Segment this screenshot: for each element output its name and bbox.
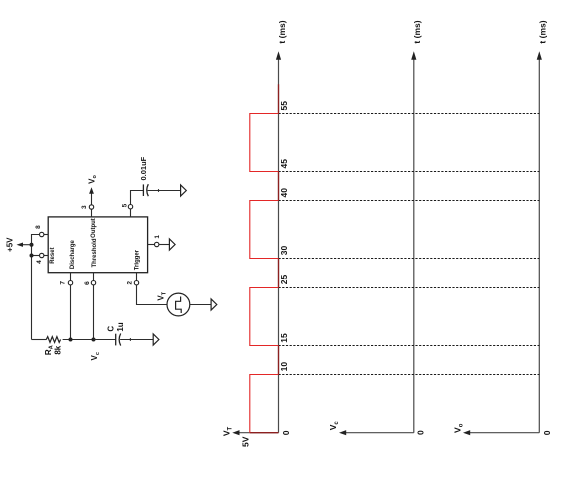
wire pin2 stub bbox=[136, 273, 138, 281]
node t-axis plot 3 bbox=[538, 59, 540, 433]
resistor RA 8k bbox=[46, 337, 60, 343]
svg-text:Vc: Vc bbox=[328, 421, 340, 431]
ground after C1 bbox=[153, 334, 159, 345]
svg-text:Vo: Vo bbox=[87, 175, 98, 184]
junction pin7/rail bbox=[69, 338, 73, 342]
svg-text:0.01uF: 0.01uF bbox=[139, 156, 148, 180]
wire C1 to ground bbox=[120, 339, 153, 341]
pin 6 terminal bbox=[91, 281, 95, 285]
svg-text:55: 55 bbox=[279, 101, 289, 111]
svg-text:0: 0 bbox=[281, 430, 291, 435]
junction pin4 bbox=[30, 254, 34, 258]
capacitor C1 1u bbox=[115, 334, 117, 346]
svg-text:Vo: Vo bbox=[452, 423, 464, 433]
svg-text:+5V: +5V bbox=[5, 237, 14, 252]
capacitor C2 0.01uF bbox=[142, 184, 144, 196]
wire pin1 to ground bbox=[159, 244, 170, 246]
power +5V arrow bbox=[23, 244, 32, 246]
svg-text:4: 4 bbox=[36, 260, 43, 264]
svg-text:7: 7 bbox=[60, 281, 67, 285]
svg-text:6: 6 bbox=[84, 281, 91, 285]
svg-text:8k: 8k bbox=[53, 345, 62, 354]
svg-text:2: 2 bbox=[126, 281, 133, 285]
junction supply/+5V bbox=[30, 243, 34, 247]
svg-text:VT: VT bbox=[157, 291, 168, 300]
svg-text:Output: Output bbox=[91, 218, 97, 238]
op-amp U1 555 timer body bbox=[48, 217, 147, 273]
svg-text:Vc: Vc bbox=[90, 352, 101, 360]
svg-text:C: C bbox=[106, 326, 115, 332]
node value-axis plot 3 bbox=[469, 432, 539, 434]
svg-text:t (ms): t (ms) bbox=[277, 20, 287, 43]
gridline t=40 bbox=[279, 200, 540, 202]
waveform VT pulse segments bbox=[250, 114, 279, 433]
node value-axis plot 2 bbox=[345, 432, 414, 434]
wire pin4 stub bbox=[44, 255, 48, 257]
svg-text:8: 8 bbox=[35, 225, 42, 229]
pin 5 terminal bbox=[128, 205, 132, 209]
svg-text:5: 5 bbox=[122, 203, 129, 207]
node t-axis plot 2 bbox=[413, 59, 415, 433]
pin 7 terminal bbox=[68, 281, 72, 285]
gridline t=30 bbox=[279, 258, 540, 260]
svg-text:25: 25 bbox=[279, 275, 289, 285]
svg-text:0: 0 bbox=[542, 430, 552, 435]
wire pin2 to VT source bbox=[137, 285, 167, 305]
wire pin6 down bbox=[93, 273, 95, 340]
gridline t=55 bbox=[279, 113, 540, 115]
svg-text:1: 1 bbox=[154, 235, 161, 239]
svg-text:1u: 1u bbox=[116, 322, 125, 331]
svg-text:Reset: Reset bbox=[50, 247, 56, 263]
svg-text:Discharge: Discharge bbox=[70, 239, 76, 269]
svg-text:VT: VT bbox=[222, 427, 234, 437]
svg-text:0: 0 bbox=[415, 430, 425, 435]
source VT circle bbox=[167, 293, 190, 316]
wire VT source to ground bbox=[190, 304, 211, 306]
gridline t=25 bbox=[279, 287, 540, 289]
svg-text:3: 3 bbox=[81, 205, 88, 209]
wire RA to node bbox=[63, 339, 94, 341]
ground after C2 bbox=[181, 185, 187, 196]
wire pin8 stub bbox=[44, 234, 48, 236]
wire pin1 stub bbox=[148, 244, 155, 246]
pin 8 terminal bbox=[40, 232, 44, 236]
wire pin5 stub bbox=[130, 209, 132, 217]
svg-text:t (ms): t (ms) bbox=[412, 20, 422, 43]
svg-text:10: 10 bbox=[279, 362, 289, 372]
node t-axis plot 1 bbox=[278, 59, 280, 433]
ground after VT source bbox=[211, 299, 217, 310]
gridline t=15 bbox=[279, 345, 540, 347]
svg-text:30: 30 bbox=[279, 246, 289, 256]
wire rail to RA bbox=[32, 339, 47, 341]
pin 3 terminal bbox=[89, 205, 93, 209]
wire supply rail bbox=[32, 235, 40, 340]
svg-text:Threshold: Threshold bbox=[92, 238, 98, 267]
wire pin7 down bbox=[70, 273, 72, 340]
wire pin3 stub bbox=[91, 209, 93, 217]
ground at pin1 bbox=[169, 239, 175, 250]
svg-text:40: 40 bbox=[279, 188, 289, 198]
pin 2 terminal bbox=[134, 281, 138, 285]
wire C2 to ground bbox=[148, 190, 181, 192]
svg-text:Trigger: Trigger bbox=[135, 249, 141, 270]
gridline t=45 bbox=[279, 171, 540, 173]
waveform VT on-axis segments bbox=[250, 432, 279, 434]
svg-text:45: 45 bbox=[279, 159, 289, 169]
node value-axis plot 1 bbox=[238, 432, 278, 434]
gridline t=10 bbox=[279, 374, 540, 376]
node Vc junction bbox=[92, 338, 96, 342]
node Vo arrow bbox=[91, 193, 93, 205]
pin 1 terminal bbox=[155, 242, 159, 246]
svg-text:15: 15 bbox=[279, 333, 289, 343]
pin 4 terminal bbox=[40, 253, 44, 257]
svg-text:5V: 5V bbox=[241, 436, 251, 447]
svg-text:t (ms): t (ms) bbox=[538, 20, 548, 43]
wire node to C1 bbox=[94, 339, 116, 341]
wire pin5 to C2 bbox=[131, 191, 144, 205]
